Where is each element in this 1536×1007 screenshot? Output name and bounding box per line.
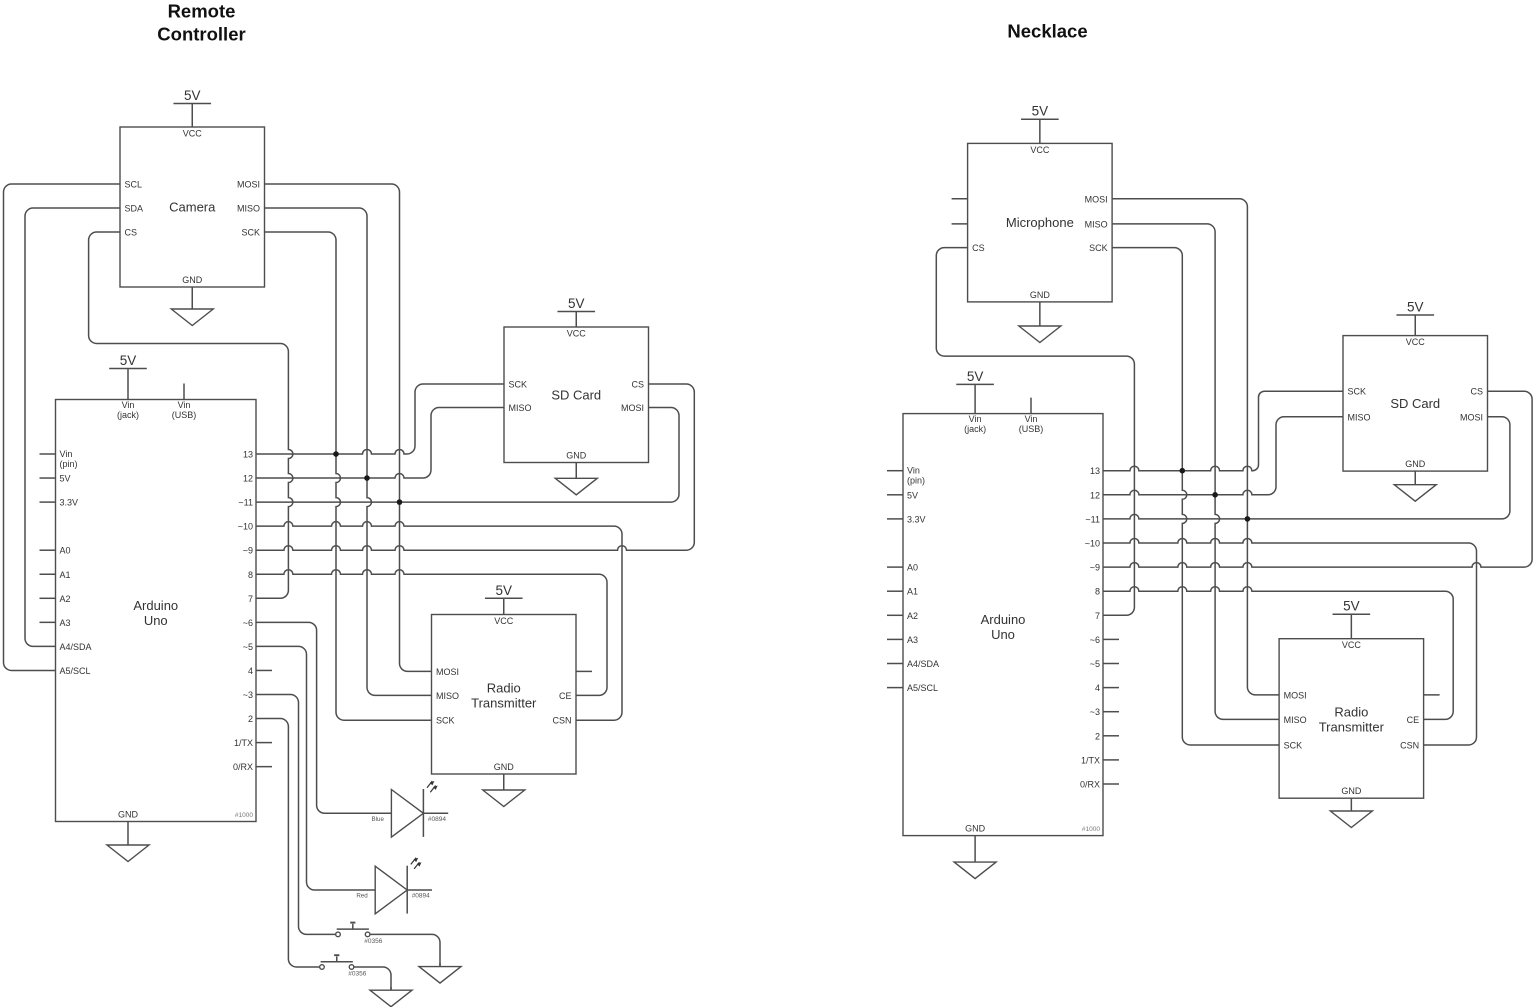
wire microphone SCK to Arduino pin 13 (right) xyxy=(1103,248,1182,471)
ground (pushbutton S1) xyxy=(439,963,441,967)
svg-text:SCK: SCK xyxy=(436,716,455,726)
svg-text:MISO: MISO xyxy=(1348,412,1371,422)
svg-text:CS: CS xyxy=(125,228,138,238)
svg-text:#0356: #0356 xyxy=(348,971,366,978)
svg-text:VCC: VCC xyxy=(494,616,514,626)
wire I2C SDA: camera SDA to Arduino A4/SDA xyxy=(25,208,120,646)
wire pushbutton S2 to ground xyxy=(354,967,391,990)
svg-text:Vin: Vin xyxy=(178,400,191,410)
svg-text:SD Card: SD Card xyxy=(1390,396,1440,411)
wire microphone CS to Arduino pin 7 (right) xyxy=(936,248,1134,616)
svg-text:Arduino: Arduino xyxy=(133,598,178,613)
svg-text:VCC: VCC xyxy=(567,329,587,339)
svg-text:~10: ~10 xyxy=(238,522,253,532)
svg-text:0/RX: 0/RX xyxy=(233,762,253,772)
ground (SD card left) xyxy=(575,463,577,479)
svg-text:A2: A2 xyxy=(907,611,918,621)
svg-text:~5: ~5 xyxy=(243,642,253,652)
wire SD MOSI to MOSI net (pin ~11 row) xyxy=(400,408,680,503)
wire camera SCK to Arduino pin 13 xyxy=(256,232,336,454)
power 5V (Arduino left, Vin jack) xyxy=(109,369,147,400)
svg-text:GND: GND xyxy=(494,762,515,772)
svg-text:Vin: Vin xyxy=(122,400,135,410)
svg-text:A4/SDA: A4/SDA xyxy=(60,642,92,652)
wire SD SCK to SCK net (pin 13 row) xyxy=(336,384,504,454)
svg-text:5V: 5V xyxy=(1343,599,1360,614)
ground (Arduino right) xyxy=(974,836,976,863)
svg-text:5V: 5V xyxy=(1032,104,1049,119)
svg-text:VCC: VCC xyxy=(1030,145,1050,155)
wire microphone MISO to Arduino pin 12 (right) xyxy=(1103,224,1215,495)
junction SCK net / pin 13 (right) xyxy=(1180,468,1186,474)
svg-text:~3: ~3 xyxy=(243,690,253,700)
svg-text:MISO: MISO xyxy=(1085,219,1108,229)
svg-text:GND: GND xyxy=(1341,786,1362,796)
ground (pushbutton S2) xyxy=(390,987,392,990)
junction MOSI net / pin ~11 (right) xyxy=(1245,516,1251,522)
wire SD SCK to SCK net (right) xyxy=(1182,391,1343,471)
svg-text:Radio: Radio xyxy=(1334,704,1368,719)
power 5V (radio right) xyxy=(1333,614,1371,639)
svg-text:(jack): (jack) xyxy=(117,410,139,420)
wire microphone MOSI to Arduino pin ~11 (right) xyxy=(1103,199,1247,519)
svg-text:MOSI: MOSI xyxy=(436,667,459,677)
wire SD MISO to MISO net (right) xyxy=(1215,417,1343,495)
svg-text:SCK: SCK xyxy=(1089,243,1108,253)
wire radio MISO to MISO net junction (right) xyxy=(1215,495,1279,720)
svg-text:MOSI: MOSI xyxy=(1284,690,1307,700)
radio transmitter (right) xyxy=(1279,639,1424,799)
pin stub Vin(USB) top (right) xyxy=(1030,398,1032,414)
wire Arduino ~6 to blue LED anode xyxy=(256,622,391,813)
svg-text:2: 2 xyxy=(1095,731,1100,741)
wire radio MOSI to MOSI net junction (right) xyxy=(1247,519,1279,695)
LED D2 red xyxy=(375,866,407,914)
svg-text:GND: GND xyxy=(566,451,587,461)
svg-text:0/RX: 0/RX xyxy=(1080,780,1100,790)
svg-text:~9: ~9 xyxy=(1090,563,1100,573)
svg-text:SCK: SCK xyxy=(1284,741,1303,751)
svg-text:CS: CS xyxy=(631,380,644,390)
svg-text:SCK: SCK xyxy=(241,228,260,238)
svg-text:2: 2 xyxy=(248,714,253,724)
svg-text:4: 4 xyxy=(1095,683,1100,693)
wire radio CSN to Arduino pin ~10 (right) xyxy=(1103,539,1477,746)
svg-text:8: 8 xyxy=(1095,587,1100,597)
svg-text:(pin): (pin) xyxy=(907,476,925,486)
wire radio SCK to SCK net junction (right) xyxy=(1182,471,1279,745)
svg-text:VCC: VCC xyxy=(1342,640,1362,650)
camera module xyxy=(120,127,265,287)
Arduino left pins xyxy=(40,453,56,455)
wire pushbutton S1 to ground xyxy=(370,934,440,966)
power 5V (radio left) xyxy=(485,598,523,614)
svg-text:GND: GND xyxy=(182,275,203,285)
svg-text:Arduino: Arduino xyxy=(981,612,1026,627)
wire camera CS to Arduino pin 7 xyxy=(89,232,293,598)
wire Arduino ~5 to red LED anode xyxy=(256,646,375,890)
svg-text:Transmitter: Transmitter xyxy=(1319,719,1385,734)
svg-text:SD Card: SD Card xyxy=(551,387,601,402)
svg-text:~6: ~6 xyxy=(243,618,253,628)
ground (Arduino left) xyxy=(127,822,129,846)
wire SD CS to Arduino pin ~9 xyxy=(256,384,694,550)
svg-text:~6: ~6 xyxy=(1090,635,1100,645)
svg-text:MISO: MISO xyxy=(436,691,459,701)
ground (camera) xyxy=(191,287,193,309)
svg-text:7: 7 xyxy=(248,594,253,604)
wire SD CS to Arduino pin ~9 (right) xyxy=(1103,391,1532,567)
svg-text:Blue: Blue xyxy=(372,816,385,823)
svg-text:13: 13 xyxy=(243,450,253,460)
svg-text:A2: A2 xyxy=(60,594,71,604)
svg-text:5V: 5V xyxy=(60,474,71,484)
svg-text:5V: 5V xyxy=(184,88,201,103)
power 5V (SD card right) xyxy=(1396,315,1434,336)
svg-text:Vin: Vin xyxy=(1025,414,1038,424)
svg-text:#0894: #0894 xyxy=(428,816,446,823)
svg-text:MISO: MISO xyxy=(237,204,260,214)
svg-text:MISO: MISO xyxy=(1284,715,1307,725)
svg-text:A0: A0 xyxy=(60,546,71,556)
svg-text:Vin: Vin xyxy=(907,466,920,476)
svg-text:MOSI: MOSI xyxy=(1460,412,1483,422)
svg-text:A3: A3 xyxy=(907,635,918,645)
svg-text:#1000: #1000 xyxy=(1082,826,1100,833)
svg-text:MOSI: MOSI xyxy=(621,403,644,413)
svg-text:CSN: CSN xyxy=(1400,741,1419,751)
svg-text:5V: 5V xyxy=(120,353,137,368)
svg-text:A5/SCL: A5/SCL xyxy=(60,666,91,676)
svg-text:A1: A1 xyxy=(907,587,918,597)
svg-text:Necklace: Necklace xyxy=(1007,21,1087,42)
svg-text:(USB): (USB) xyxy=(1019,424,1044,434)
svg-text:A4/SDA: A4/SDA xyxy=(907,659,939,669)
wire camera MOSI to Arduino pin ~11 xyxy=(256,184,400,502)
power 5V (Arduino right, Vin jack) xyxy=(956,384,994,413)
svg-text:5V: 5V xyxy=(1407,300,1424,315)
power 5V (SD card left) xyxy=(557,312,595,328)
svg-text:SDA: SDA xyxy=(125,204,144,214)
pushbutton S1 xyxy=(337,928,369,930)
svg-text:VCC: VCC xyxy=(183,129,203,139)
microphone module xyxy=(968,143,1113,302)
svg-text:SCK: SCK xyxy=(509,380,528,390)
wire radio CE to Arduino pin 8 xyxy=(256,570,607,696)
svg-text:12: 12 xyxy=(1090,490,1100,500)
wire SD MISO to MISO net (pin 12 row) xyxy=(367,408,504,479)
svg-text:Transmitter: Transmitter xyxy=(471,695,537,710)
svg-text:GND: GND xyxy=(118,810,139,820)
svg-text:MISO: MISO xyxy=(509,403,532,413)
svg-text:Camera: Camera xyxy=(169,200,216,215)
svg-text:3.3V: 3.3V xyxy=(60,498,79,508)
svg-text:7: 7 xyxy=(1095,611,1100,621)
svg-text:~11: ~11 xyxy=(238,498,253,508)
svg-text:8: 8 xyxy=(248,570,253,580)
svg-text:~10: ~10 xyxy=(1085,539,1100,549)
svg-text:5V: 5V xyxy=(907,490,918,500)
svg-text:~11: ~11 xyxy=(1085,514,1100,524)
svg-text:(jack): (jack) xyxy=(964,424,986,434)
svg-text:Remote: Remote xyxy=(168,1,236,22)
svg-text:Vin: Vin xyxy=(969,414,982,424)
junction MISO net / pin 12 (right) xyxy=(1212,492,1218,498)
svg-text:SCK: SCK xyxy=(1348,387,1367,397)
wire radio MISO to MISO net junction xyxy=(367,478,432,695)
wire Arduino 2 to pushbutton S2 xyxy=(256,719,320,967)
Arduino Uno (right) xyxy=(903,414,1103,836)
svg-text:5V: 5V xyxy=(495,583,512,598)
svg-text:MOSI: MOSI xyxy=(237,180,260,190)
wire radio CSN to Arduino pin ~10 xyxy=(256,522,622,721)
svg-text:CE: CE xyxy=(559,691,572,701)
svg-text:4: 4 xyxy=(248,666,253,676)
svg-text:Uno: Uno xyxy=(991,627,1015,642)
svg-text:Red: Red xyxy=(356,893,368,900)
svg-text:13: 13 xyxy=(1090,466,1100,476)
svg-text:Vin: Vin xyxy=(60,449,73,459)
ground (radio left) xyxy=(503,774,505,790)
svg-text:GND: GND xyxy=(965,824,986,834)
svg-text:#0894: #0894 xyxy=(412,893,430,900)
svg-text:(USB): (USB) xyxy=(172,410,197,420)
LED D1 blue xyxy=(391,790,423,838)
svg-text:~9: ~9 xyxy=(243,546,253,556)
svg-text:CS: CS xyxy=(972,243,985,253)
svg-text:Microphone: Microphone xyxy=(1006,215,1074,230)
power 5V (camera) xyxy=(173,104,211,128)
svg-text:A5/SCL: A5/SCL xyxy=(907,683,938,693)
svg-text:A3: A3 xyxy=(60,618,71,628)
wire radio CE to Arduino pin 8 (right) xyxy=(1103,587,1453,720)
svg-text:A1: A1 xyxy=(60,570,71,580)
wire I2C SCL: camera SCL to Arduino A5/SCL xyxy=(4,184,121,670)
svg-text:~3: ~3 xyxy=(1090,707,1100,717)
junction SCK net / pin 13 xyxy=(333,451,339,457)
svg-text:Radio: Radio xyxy=(487,680,521,695)
power 5V (microphone) xyxy=(1021,119,1059,143)
ground (microphone) xyxy=(1039,302,1041,326)
svg-text:#0356: #0356 xyxy=(364,938,382,945)
pin stub Vin(USB) top xyxy=(183,384,185,400)
svg-text:1/TX: 1/TX xyxy=(1081,755,1100,765)
svg-text:VCC: VCC xyxy=(1406,337,1426,347)
svg-text:SCL: SCL xyxy=(125,180,143,190)
svg-text:GND: GND xyxy=(1030,290,1051,300)
svg-text:#1000: #1000 xyxy=(235,812,253,819)
svg-text:CS: CS xyxy=(1470,387,1483,397)
svg-text:~5: ~5 xyxy=(1090,659,1100,669)
svg-text:GND: GND xyxy=(1405,459,1426,469)
svg-text:Controller: Controller xyxy=(157,24,245,45)
svg-text:A0: A0 xyxy=(907,563,918,573)
ground (SD card right) xyxy=(1414,471,1416,485)
junction MISO net / pin 12 xyxy=(364,475,370,481)
wire SD MOSI to MOSI net (right) xyxy=(1247,417,1510,519)
wire camera MISO to Arduino pin 12 xyxy=(256,208,367,478)
SD card module (left) xyxy=(504,327,649,463)
radio transmitter (left) xyxy=(432,615,577,775)
svg-text:1/TX: 1/TX xyxy=(234,738,253,748)
Arduino left pins (right board) xyxy=(887,470,903,472)
ground (radio right) xyxy=(1350,798,1352,811)
wire Arduino ~3 to pushbutton S1 xyxy=(256,695,336,935)
svg-text:CE: CE xyxy=(1407,715,1420,725)
junction MOSI net / pin ~11 xyxy=(397,499,403,505)
svg-text:CSN: CSN xyxy=(552,716,571,726)
wire radio MOSI to MOSI net junction xyxy=(400,502,432,671)
svg-text:12: 12 xyxy=(243,474,253,484)
svg-text:(pin): (pin) xyxy=(60,459,78,469)
svg-text:5V: 5V xyxy=(967,369,984,384)
svg-text:MOSI: MOSI xyxy=(1085,194,1108,204)
svg-text:3.3V: 3.3V xyxy=(907,514,926,524)
wire radio SCK to SCK net junction xyxy=(336,454,432,720)
pushbutton S2 xyxy=(321,961,353,963)
SD card module (right) xyxy=(1343,336,1488,472)
svg-text:5V: 5V xyxy=(568,296,585,311)
Arduino Uno (left) xyxy=(56,400,257,822)
svg-text:Uno: Uno xyxy=(144,613,168,628)
